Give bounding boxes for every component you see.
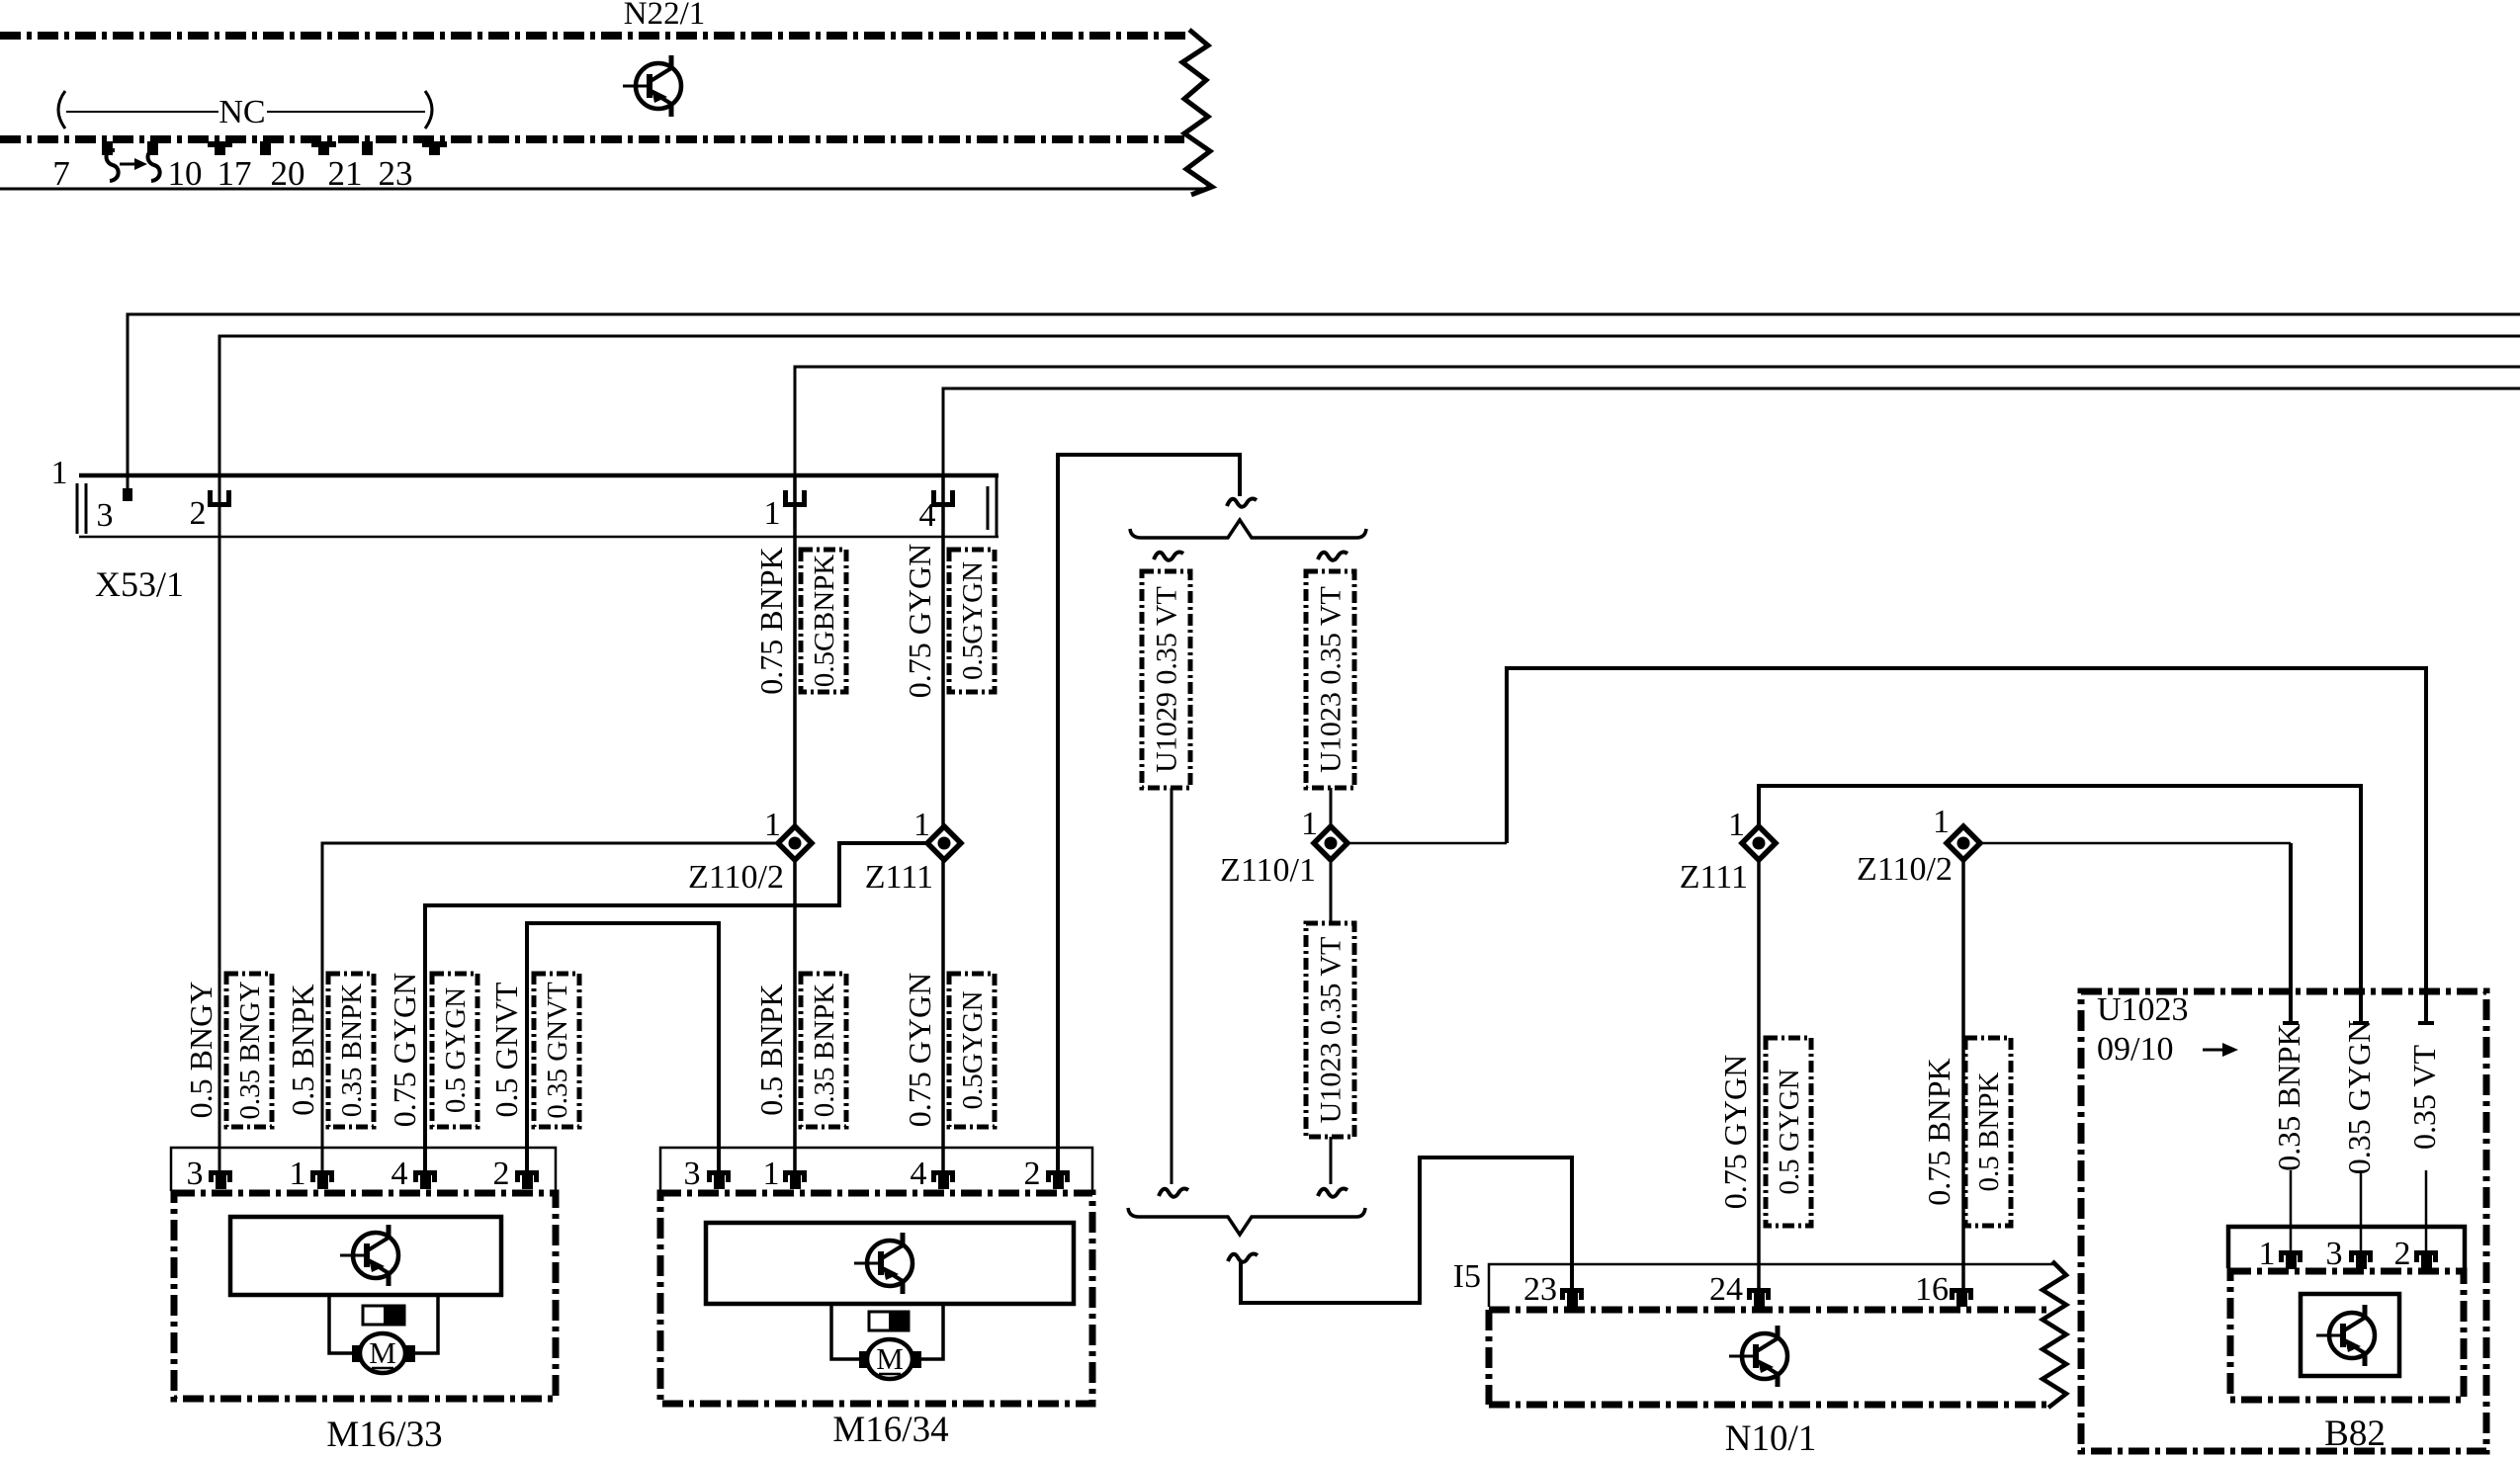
wire from U1023 label down to splice Z110/1 <box>1330 788 1333 843</box>
svg-text:0.5 GYGN: 0.5 GYGN <box>440 987 472 1113</box>
svg-text:Z110/1: Z110/1 <box>1220 852 1316 889</box>
M16/34 pin 1 terminal <box>783 1170 807 1189</box>
svg-text:24: 24 <box>1709 1271 1743 1308</box>
wire splice Z110/2 (right) down to N10/1 pin 16 <box>1961 843 1965 1290</box>
wire end tick 0.35 VT <box>2418 1021 2434 1025</box>
transistor icon inside M16/33 <box>340 1225 398 1286</box>
svg-text:7: 7 <box>52 154 70 193</box>
svg-text:17: 17 <box>217 154 252 193</box>
M16/33 pin 2 terminal <box>515 1170 539 1189</box>
svg-text:0.5 GYGN: 0.5 GYGN <box>1774 1069 1805 1194</box>
transistor icon inside M16/34 <box>854 1233 912 1294</box>
wire below lower U1023 label <box>1330 1137 1333 1184</box>
M16/33 inner control block <box>230 1217 501 1295</box>
B82 inner block <box>2301 1294 2399 1376</box>
curly brace (upper) grouping wiring variants <box>1130 520 1366 538</box>
svg-text:1: 1 <box>764 495 781 532</box>
svg-text:3: 3 <box>187 1156 204 1192</box>
wire break squiggle below continuation corner <box>1227 499 1257 507</box>
M16/33 position indicator <box>363 1306 404 1325</box>
wire label 0.5 BNPK (dashed, N10/1 pin 16) <box>1965 1038 2011 1226</box>
svg-text:1: 1 <box>763 1156 780 1192</box>
svg-text:2: 2 <box>2394 1236 2411 1272</box>
wire label 0.5 GYGN (dashed, N10/1 pin 24) <box>1766 1038 1811 1226</box>
control unit N10/1 dash-dot box with torn right edge <box>1489 1261 2066 1408</box>
wire label 0.5 GYGN (dashed) <box>432 974 478 1127</box>
connector bar of M16/34 <box>660 1148 1092 1191</box>
splice Z111 (right) <box>1742 826 1776 860</box>
svg-text:0.35 BNPK: 0.35 BNPK <box>809 984 840 1117</box>
svg-text:23: 23 <box>379 154 413 193</box>
X53/1 pin 1 (socket) <box>764 490 808 532</box>
wire from splice Z110/1 down to lower U1023 label <box>1330 843 1333 923</box>
wire M16/33 pin 4 route to splice Z111 <box>425 843 936 1172</box>
M16/34 position indicator <box>869 1312 909 1330</box>
svg-text:X53/1: X53/1 <box>95 564 184 604</box>
control unit N22/1 box (dash-dot borders with torn right edge) <box>0 30 1212 195</box>
svg-text:I5: I5 <box>1453 1258 1481 1295</box>
svg-text:1: 1 <box>1728 807 1745 843</box>
N22/1 pin numbers 7 10 17 20 21 23 <box>52 154 412 193</box>
B82 connector housing <box>2228 1227 2465 1268</box>
transistor icon inside N10/1 <box>1729 1326 1787 1387</box>
wire label 0.35 BNPK (dashed) <box>328 974 374 1127</box>
M16/33 motor feed wires <box>329 1295 354 1353</box>
wire 0.35 GYGN down to B82 pin 3 <box>2360 1170 2363 1250</box>
svg-text:0.75 BNPK: 0.75 BNPK <box>753 547 789 694</box>
svg-text:Z111: Z111 <box>865 859 933 896</box>
svg-text:23: 23 <box>1523 1271 1557 1308</box>
continuation squiggle above U1023 column <box>1318 553 1347 560</box>
motor M16/34 dash-dot housing <box>660 1193 1092 1404</box>
wire 0.35 BNPK down to B82 pin 1 <box>2290 1170 2293 1250</box>
svg-text:21: 21 <box>328 154 363 193</box>
wire X53/1 pin 1 down to splice Z110/2 and on to M16/34 pin 1 <box>793 475 797 1172</box>
svg-text:10: 10 <box>168 154 203 193</box>
sensor B82 dash-dot box <box>2230 1271 2464 1400</box>
wire from lower brace to N10/1 pin 23 <box>1241 1157 1572 1303</box>
splice Z111 (left) <box>927 826 961 860</box>
X53/1 pin 2 (socket) <box>190 490 232 532</box>
wire end tick 0.35 GYGN <box>2353 1021 2369 1025</box>
svg-text:0.75 GYGN: 0.75 GYGN <box>902 544 937 698</box>
svg-text:4: 4 <box>911 1156 927 1192</box>
svg-text:1: 1 <box>764 807 781 843</box>
connector bar of M16/33 <box>171 1148 556 1191</box>
svg-text:0.5GYGN: 0.5GYGN <box>957 990 989 1109</box>
splice Z110/1 <box>1314 826 1347 860</box>
N22/1 pin stubs on lower border <box>102 141 447 155</box>
wire from X53/1 pin 4 to right edge <box>943 388 2520 475</box>
wire X53/1 pin 4 down to splice Z111 and on to M16/34 pin 4 <box>941 475 945 1172</box>
wire splice Z111 (right) up and over to B82 pin 3 (0.35 GYGN run) <box>1759 786 2361 1022</box>
svg-text:1: 1 <box>1301 806 1318 842</box>
wire label 0.5GBNPK (dashed variant box) <box>801 550 846 692</box>
connector X53/1 <box>77 475 999 537</box>
N10/1 pin 16 terminal <box>1950 1288 1973 1307</box>
svg-text:0.5 BNPK: 0.5 BNPK <box>753 984 789 1115</box>
wire label 0.5GYGN (dashed variant box) <box>949 550 995 692</box>
svg-text:16: 16 <box>1915 1271 1949 1308</box>
NC bracket annotation <box>58 91 432 130</box>
svg-text:M: M <box>369 1335 396 1370</box>
wire 0.35 VT down to B82 pin 2 <box>2425 1170 2428 1250</box>
wire from X53/1 pin 2 to right edge and down to M16/33 pin 3 <box>219 336 2520 1172</box>
svg-text:0.35 VT: 0.35 VT <box>2406 1045 2442 1151</box>
connector line I5 on N10/1 <box>1489 1264 2054 1307</box>
svg-text:0.35 BNPK: 0.35 BNPK <box>2271 1023 2306 1170</box>
wire label 0.35 GNVT (dashed) <box>534 974 579 1127</box>
B82 pin 3 terminal <box>2349 1250 2373 1269</box>
wire end tick 0.35 BNPK <box>2283 1021 2299 1025</box>
wire splice Z110/2 (right) over to B82 pin 1 (0.35 BNPK run) <box>1972 842 2291 845</box>
svg-text:1: 1 <box>1933 804 1950 840</box>
M16/34 inner control block <box>706 1223 1074 1304</box>
transistor icon inside N22/1 <box>623 55 681 117</box>
svg-text:Z110/2: Z110/2 <box>1857 851 1953 888</box>
svg-text:U1023: U1023 <box>2097 991 2189 1028</box>
wire M16/33 pin 2 route to M16/34 pin 3 <box>527 923 719 1172</box>
wire break squiggle at bottom of U1029 column <box>1159 1189 1188 1197</box>
svg-text:U1023 0.35 VT: U1023 0.35 VT <box>1315 937 1347 1124</box>
svg-text:1: 1 <box>290 1156 306 1192</box>
wire label 0.35 BNGY (dashed) <box>226 974 272 1127</box>
svg-text:1: 1 <box>2259 1236 2276 1272</box>
svg-text:M: M <box>876 1341 904 1376</box>
wire M16/34 pin 2 up to continuation mark <box>1058 455 1240 1172</box>
svg-text:2: 2 <box>1024 1156 1041 1192</box>
curly brace (lower) regrouping wiring variants <box>1128 1208 1365 1235</box>
motor M16/33 dash-dot housing <box>174 1193 556 1399</box>
M16/34 pin 2 terminal <box>1046 1170 1070 1189</box>
M16/34 motor feed wires <box>831 1304 861 1359</box>
B82 pin 2 terminal <box>2414 1250 2438 1269</box>
wire label 0.35 BNPK (dashed, M16/34 pin1) <box>801 974 846 1127</box>
svg-text:B82: B82 <box>2324 1414 2386 1454</box>
M16/33 motor M <box>352 1333 415 1373</box>
variant label box U1029 0.35 VT <box>1142 571 1190 788</box>
svg-text:0.5GBNPK: 0.5GBNPK <box>809 555 840 688</box>
svg-text:0.35 GYGN: 0.35 GYGN <box>2341 1020 2377 1174</box>
svg-text:U1029 0.35 VT: U1029 0.35 VT <box>1151 586 1183 773</box>
svg-text:3: 3 <box>2326 1236 2343 1272</box>
svg-text:M16/34: M16/34 <box>832 1410 948 1450</box>
svg-text:0.5 BNGY: 0.5 BNGY <box>183 982 218 1119</box>
svg-text:0.5GYGN: 0.5GYGN <box>957 561 989 680</box>
N10/1 pin 24 terminal <box>1747 1288 1771 1307</box>
M16/33 pin 4 terminal <box>413 1170 437 1189</box>
wire M16/33 pin 1 up and right to splice Z110/2 <box>322 843 787 1172</box>
skipped-pins symbol between pin 7 and pin 10 <box>107 150 160 181</box>
transistor icon inside B82 <box>2316 1305 2375 1366</box>
variant label box U1023 0.35 VT (upper) <box>1306 571 1354 788</box>
svg-text:Z111: Z111 <box>1680 859 1748 896</box>
M16/34 pin 3 terminal <box>707 1170 731 1189</box>
N10/1 pin 23 terminal <box>1560 1288 1584 1307</box>
M16/34 pin 4 terminal <box>931 1170 955 1189</box>
svg-text:0.5 BNPK: 0.5 BNPK <box>285 984 320 1115</box>
svg-text:0.5 BNPK: 0.5 BNPK <box>1973 1072 2005 1192</box>
variant label box U1023 0.35 VT (lower) <box>1306 923 1354 1137</box>
svg-text:4: 4 <box>919 497 936 534</box>
variant frame U1023 09/10 (dash-dot) <box>2081 991 2486 1451</box>
svg-text:0.35 GNVT: 0.35 GNVT <box>542 982 573 1119</box>
svg-text:2: 2 <box>493 1156 510 1192</box>
splice Z110/2 (right) <box>1947 826 1980 860</box>
svg-text:09/10: 09/10 <box>2097 1031 2173 1068</box>
svg-text:0.35 BNPK: 0.35 BNPK <box>336 984 368 1117</box>
svg-text:1: 1 <box>913 807 930 843</box>
wire from X53/1 pin 3 to right edge <box>128 314 2520 494</box>
svg-text:20: 20 <box>271 154 305 193</box>
svg-text:0.5 GNVT: 0.5 GNVT <box>488 982 524 1117</box>
svg-text:M16/33: M16/33 <box>326 1414 442 1455</box>
B82 pin 1 terminal <box>2279 1250 2303 1269</box>
wire label 0.5GYGN (dashed, M16/34 pin4) <box>949 974 995 1127</box>
wire splice Z111 (right) down to N10/1 pin 24 <box>1757 843 1761 1290</box>
svg-text:4: 4 <box>391 1156 408 1192</box>
svg-text:0.75 GYGN: 0.75 GYGN <box>1717 1055 1753 1209</box>
svg-text:1: 1 <box>51 455 68 491</box>
M16/34 motor M <box>859 1339 921 1379</box>
X53/1 pin 4 (socket) <box>919 490 956 534</box>
wire below U1029 label down to lower brace <box>1171 788 1173 1184</box>
wire break squiggle at bottom of U1023 column <box>1318 1189 1347 1197</box>
continuation squiggle below lower brace <box>1228 1254 1258 1262</box>
svg-text:Z110/2: Z110/2 <box>688 859 784 896</box>
svg-text:0.35 BNGY: 0.35 BNGY <box>234 981 266 1119</box>
label U1023 09/10 with arrow <box>2097 991 2238 1068</box>
M16/33 pin 1 terminal <box>310 1170 334 1189</box>
X53/1 pin 3 (wire end stub) <box>97 488 133 534</box>
wire from X53/1 pin 1 to right edge <box>795 367 2520 475</box>
continuation squiggle above U1029 column <box>1154 553 1183 560</box>
svg-text:0.75 GYGN: 0.75 GYGN <box>387 973 422 1127</box>
svg-text:3: 3 <box>684 1156 701 1192</box>
svg-text:U1023 0.35 VT: U1023 0.35 VT <box>1315 586 1347 773</box>
svg-text:2: 2 <box>190 495 207 532</box>
svg-text:NC: NC <box>218 94 265 130</box>
wire from splice Z110/1 right and up over to B82 pin 2 (0.35 VT run) <box>1347 842 1507 845</box>
svg-text:N10/1: N10/1 <box>1725 1418 1817 1457</box>
splice Z110/2 (left) <box>778 826 812 860</box>
svg-text:0.75 BNPK: 0.75 BNPK <box>1921 1058 1956 1205</box>
svg-text:0.75 GYGN: 0.75 GYGN <box>902 973 937 1127</box>
svg-text:3: 3 <box>97 497 114 534</box>
M16/33 pin 3 terminal <box>209 1170 232 1189</box>
svg-text:N22/1: N22/1 <box>624 0 706 32</box>
